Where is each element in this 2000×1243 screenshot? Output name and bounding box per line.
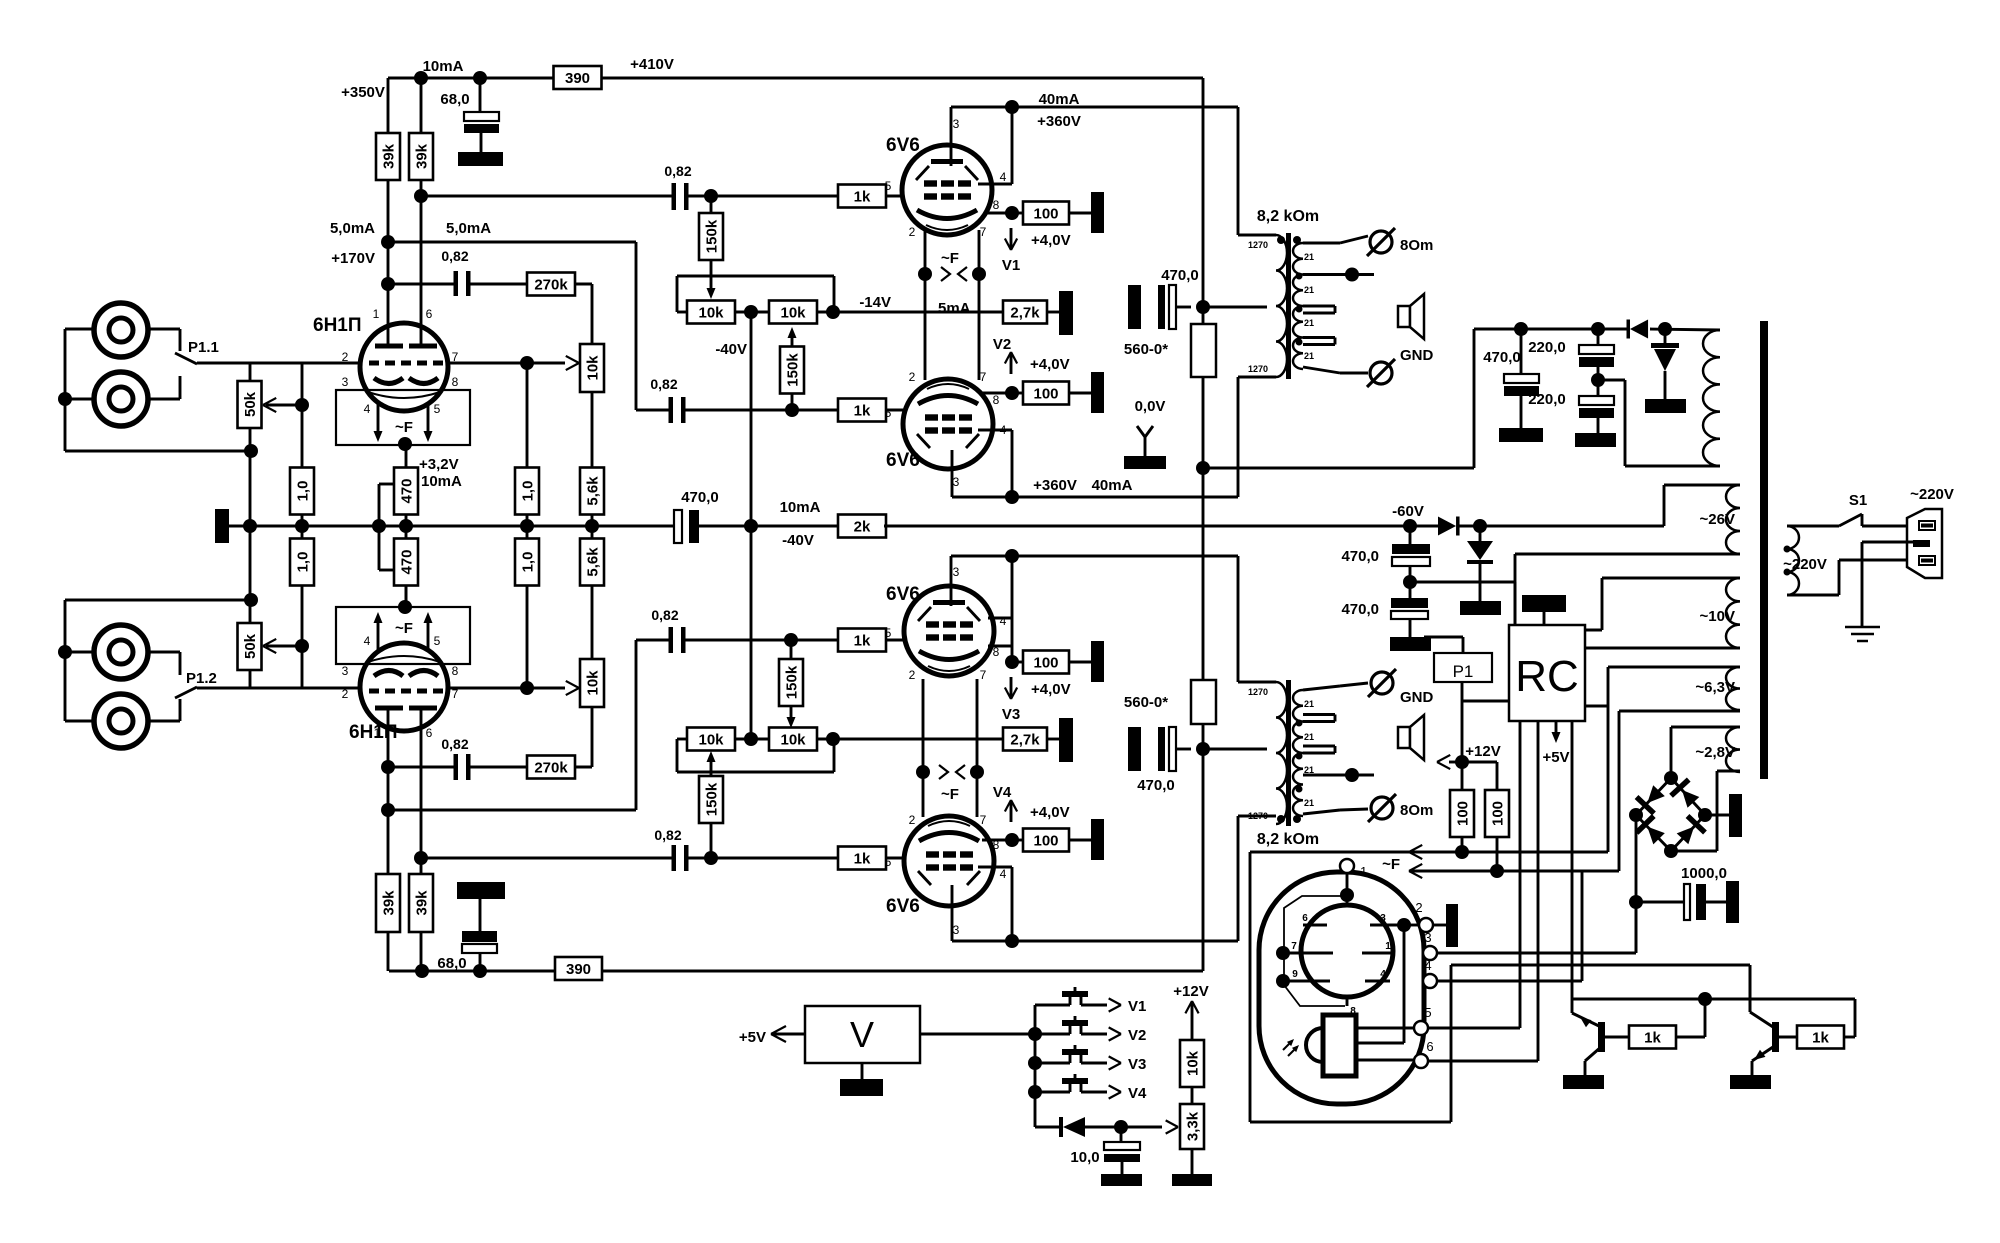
svg-text:6V6: 6V6 [886, 450, 920, 471]
svg-text:+5V: +5V [739, 1029, 766, 1046]
svg-text:5: 5 [885, 626, 892, 640]
svg-text:150k: 150k [784, 353, 801, 387]
svg-text:21: 21 [1304, 732, 1314, 742]
svg-text:4: 4 [1424, 958, 1431, 973]
svg-text:3: 3 [1424, 930, 1431, 945]
svg-text:10k: 10k [698, 732, 724, 749]
svg-text:8: 8 [993, 393, 1000, 407]
svg-text:6Н1П: 6Н1П [313, 315, 362, 336]
svg-text:+12V: +12V [1173, 983, 1208, 1000]
svg-text:39k: 39k [380, 143, 397, 169]
svg-text:39k: 39k [413, 890, 430, 916]
svg-text:1,0: 1,0 [294, 481, 311, 502]
svg-text:~26V: ~26V [1700, 511, 1735, 528]
svg-text:8,2 kOm: 8,2 kOm [1257, 831, 1319, 848]
svg-text:50k: 50k [242, 391, 259, 417]
svg-text:8: 8 [452, 375, 459, 389]
svg-text:1k: 1k [854, 633, 871, 650]
svg-text:RC: RC [1515, 652, 1579, 701]
svg-text:6: 6 [1426, 1039, 1433, 1054]
svg-text:1270: 1270 [1248, 240, 1268, 250]
svg-text:~F: ~F [395, 419, 413, 436]
svg-text:P1.1: P1.1 [188, 339, 219, 356]
svg-text:2: 2 [909, 370, 916, 384]
svg-text:2,7k: 2,7k [1010, 305, 1040, 322]
svg-text:10mA: 10mA [421, 473, 462, 490]
svg-text:470: 470 [398, 478, 415, 503]
svg-text:+4,0V: +4,0V [1031, 232, 1071, 249]
svg-text:470,0: 470,0 [1341, 601, 1379, 618]
svg-text:3,3k: 3,3k [1184, 1111, 1201, 1141]
svg-text:21: 21 [1304, 318, 1314, 328]
svg-text:V: V [850, 1014, 874, 1055]
svg-text:6V6: 6V6 [886, 135, 920, 156]
svg-text:10k: 10k [780, 732, 806, 749]
svg-text:V3: V3 [1002, 706, 1020, 723]
svg-text:8,2 kOm: 8,2 kOm [1257, 208, 1319, 225]
svg-text:100: 100 [1033, 206, 1058, 223]
svg-text:1k: 1k [854, 403, 871, 420]
svg-text:~F: ~F [941, 250, 959, 267]
svg-text:50k: 50k [242, 633, 259, 659]
svg-text:3: 3 [342, 375, 349, 389]
svg-text:3: 3 [953, 475, 960, 489]
svg-text:270k: 270k [534, 760, 568, 777]
svg-text:1: 1 [373, 307, 380, 321]
svg-text:+170V: +170V [331, 250, 375, 267]
svg-text:10k: 10k [698, 305, 724, 322]
svg-text:10k: 10k [1184, 1050, 1201, 1076]
svg-text:21: 21 [1304, 285, 1314, 295]
svg-text:GND: GND [1400, 347, 1434, 364]
svg-text:40mA: 40mA [1092, 477, 1133, 494]
svg-text:V1: V1 [1128, 998, 1146, 1015]
svg-text:4: 4 [1000, 170, 1007, 184]
svg-text:6: 6 [1302, 913, 1308, 924]
svg-text:39k: 39k [413, 143, 430, 169]
svg-text:1k: 1k [854, 851, 871, 868]
svg-text:270k: 270k [534, 277, 568, 294]
svg-text:470,0: 470,0 [681, 489, 719, 506]
svg-text:5,0mA: 5,0mA [330, 220, 375, 237]
svg-text:6: 6 [426, 726, 433, 740]
svg-text:+350V: +350V [341, 84, 385, 101]
svg-text:1k: 1k [1644, 1030, 1661, 1047]
svg-text:21: 21 [1304, 699, 1314, 709]
svg-text:+3,2V: +3,2V [419, 456, 459, 473]
svg-text:6V6: 6V6 [886, 896, 920, 917]
svg-text:40mA: 40mA [1039, 91, 1080, 108]
svg-text:V2: V2 [1128, 1027, 1146, 1044]
svg-text:1: 1 [1360, 864, 1367, 879]
svg-text:5: 5 [434, 402, 441, 416]
svg-text:5,0mA: 5,0mA [446, 220, 491, 237]
svg-text:+360V: +360V [1037, 113, 1081, 130]
svg-text:390: 390 [566, 961, 591, 978]
svg-text:100: 100 [1454, 801, 1471, 826]
svg-text:1270: 1270 [1248, 364, 1268, 374]
svg-text:21: 21 [1304, 351, 1314, 361]
svg-text:V1: V1 [1002, 257, 1020, 274]
svg-text:5mA: 5mA [938, 300, 971, 317]
svg-text:0,0V: 0,0V [1135, 398, 1166, 415]
svg-text:470,0: 470,0 [1341, 548, 1379, 565]
svg-text:2: 2 [909, 668, 916, 682]
svg-text:1000,0: 1000,0 [1681, 865, 1727, 882]
svg-text:3: 3 [342, 664, 349, 678]
svg-text:+4,0V: +4,0V [1030, 356, 1070, 373]
svg-text:8Om: 8Om [1400, 802, 1433, 819]
svg-text:5: 5 [434, 634, 441, 648]
svg-text:-40V: -40V [715, 341, 747, 358]
svg-text:8Om: 8Om [1400, 237, 1433, 254]
svg-text:3: 3 [953, 565, 960, 579]
svg-text:~10V: ~10V [1700, 608, 1735, 625]
svg-text:0,82: 0,82 [654, 827, 681, 843]
svg-text:10mA: 10mA [780, 499, 821, 516]
svg-text:1k: 1k [854, 189, 871, 206]
svg-text:560-0*: 560-0* [1124, 341, 1168, 358]
svg-text:3: 3 [953, 923, 960, 937]
svg-text:V2: V2 [993, 336, 1011, 353]
svg-text:10k: 10k [584, 355, 601, 381]
svg-text:100: 100 [1033, 386, 1058, 403]
svg-text:~220V: ~220V [1910, 486, 1954, 503]
svg-text:8: 8 [452, 664, 459, 678]
svg-text:2,7k: 2,7k [1010, 732, 1040, 749]
svg-text:220,0: 220,0 [1528, 391, 1566, 408]
svg-text:3: 3 [953, 117, 960, 131]
svg-text:~220V: ~220V [1783, 556, 1827, 573]
svg-text:~F: ~F [1382, 856, 1400, 873]
svg-text:10k: 10k [780, 305, 806, 322]
svg-text:0,82: 0,82 [651, 607, 678, 623]
svg-text:+4,0V: +4,0V [1030, 804, 1070, 821]
svg-text:390: 390 [565, 70, 590, 87]
svg-text:6: 6 [426, 307, 433, 321]
svg-text:4: 4 [1000, 867, 1007, 881]
svg-text:10,0: 10,0 [1070, 1149, 1099, 1166]
svg-text:0,82: 0,82 [441, 248, 468, 264]
svg-text:+12V: +12V [1465, 743, 1500, 760]
svg-text:8: 8 [993, 198, 1000, 212]
svg-text:S1: S1 [1849, 492, 1867, 509]
svg-text:~F: ~F [941, 786, 959, 803]
svg-text:-60V: -60V [1392, 503, 1424, 520]
svg-text:7: 7 [980, 370, 987, 384]
svg-text:7: 7 [980, 668, 987, 682]
svg-text:470,0: 470,0 [1137, 777, 1175, 794]
svg-text:V4: V4 [993, 784, 1012, 801]
svg-text:470,0: 470,0 [1161, 267, 1199, 284]
svg-text:3: 3 [1380, 913, 1386, 924]
svg-text:P1.2: P1.2 [186, 670, 217, 687]
svg-text:1270: 1270 [1248, 687, 1268, 697]
svg-text:5: 5 [885, 179, 892, 193]
svg-text:+410V: +410V [630, 56, 674, 73]
svg-text:220,0: 220,0 [1528, 339, 1566, 356]
svg-text:-14V: -14V [859, 294, 891, 311]
svg-text:+5V: +5V [1542, 749, 1569, 766]
svg-text:7: 7 [1291, 941, 1297, 952]
svg-text:1: 1 [374, 726, 381, 740]
svg-text:150k: 150k [783, 665, 800, 699]
svg-text:~2,8V: ~2,8V [1695, 744, 1735, 761]
svg-text:2: 2 [342, 687, 349, 701]
svg-text:21: 21 [1304, 765, 1314, 775]
svg-text:4: 4 [364, 634, 371, 648]
svg-text:+4,0V: +4,0V [1031, 681, 1071, 698]
svg-text:V3: V3 [1128, 1056, 1146, 1073]
svg-text:-40V: -40V [782, 532, 814, 549]
svg-text:560-0*: 560-0* [1124, 694, 1168, 711]
svg-text:0,82: 0,82 [441, 736, 468, 752]
svg-text:2: 2 [342, 350, 349, 364]
svg-text:4: 4 [1000, 614, 1007, 628]
svg-text:1,0: 1,0 [519, 552, 536, 573]
svg-text:470: 470 [398, 549, 415, 574]
svg-text:5,6k: 5,6k [584, 547, 601, 577]
svg-text:+360V: +360V [1033, 477, 1077, 494]
svg-text:100: 100 [1033, 655, 1058, 672]
svg-text:1,0: 1,0 [294, 552, 311, 573]
svg-text:150k: 150k [703, 782, 720, 816]
svg-text:5,6k: 5,6k [584, 476, 601, 506]
svg-text:0,82: 0,82 [650, 376, 677, 392]
svg-text:7: 7 [980, 813, 987, 827]
svg-text:7: 7 [980, 225, 987, 239]
svg-text:2: 2 [909, 225, 916, 239]
svg-text:10mA: 10mA [423, 58, 464, 75]
svg-text:2: 2 [1415, 900, 1422, 915]
svg-text:4: 4 [1380, 969, 1386, 980]
svg-text:1: 1 [1385, 941, 1391, 952]
svg-text:GND: GND [1400, 689, 1434, 706]
svg-text:1,0: 1,0 [519, 481, 536, 502]
svg-text:5: 5 [1424, 1005, 1431, 1020]
svg-text:2k: 2k [854, 519, 871, 536]
svg-text:68,0: 68,0 [440, 91, 469, 108]
svg-text:~F: ~F [395, 620, 413, 637]
svg-text:2: 2 [909, 813, 916, 827]
svg-text:0,82: 0,82 [664, 163, 691, 179]
svg-text:V4: V4 [1128, 1085, 1147, 1102]
svg-text:~6,3V: ~6,3V [1695, 679, 1735, 696]
svg-text:10k: 10k [584, 670, 601, 696]
svg-text:21: 21 [1304, 798, 1314, 808]
svg-text:39k: 39k [380, 890, 397, 916]
svg-text:5: 5 [885, 855, 892, 869]
svg-text:470,0: 470,0 [1483, 349, 1521, 366]
svg-text:1k: 1k [1812, 1030, 1829, 1047]
svg-text:5: 5 [885, 406, 892, 420]
svg-text:21: 21 [1304, 252, 1314, 262]
svg-text:150k: 150k [703, 219, 720, 253]
svg-text:100: 100 [1489, 801, 1506, 826]
svg-text:100: 100 [1033, 833, 1058, 850]
svg-text:4: 4 [364, 402, 371, 416]
svg-text:68,0: 68,0 [437, 955, 466, 972]
svg-text:P1: P1 [1453, 662, 1474, 681]
svg-text:6V6: 6V6 [886, 584, 920, 605]
svg-text:9: 9 [1292, 969, 1298, 980]
